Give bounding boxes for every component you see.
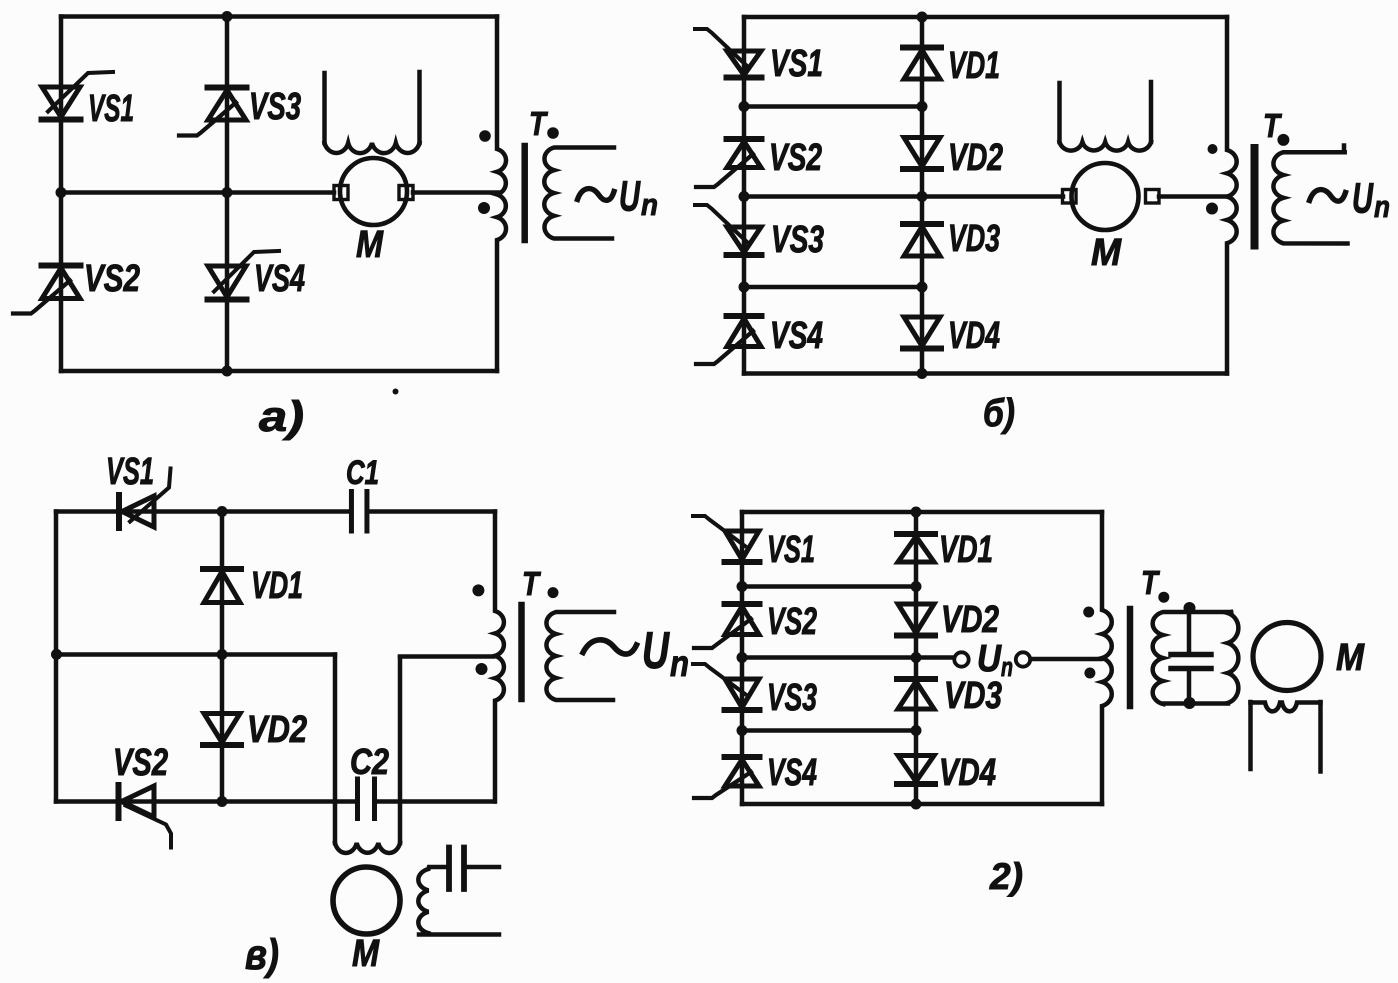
- svg-text:VS2: VS2: [769, 137, 822, 179]
- svg-text:n: n: [641, 187, 658, 222]
- svg-text:VS2: VS2: [113, 742, 168, 784]
- svg-text:VS1: VS1: [770, 43, 823, 85]
- svg-text:U: U: [619, 173, 641, 221]
- svg-text:VD2: VD2: [941, 599, 999, 641]
- svg-text:VD4: VD4: [948, 315, 1000, 357]
- svg-text:C1: C1: [346, 454, 379, 492]
- svg-text:VS1: VS1: [767, 529, 815, 571]
- svg-text:M: M: [1336, 637, 1365, 679]
- svg-text:VD3: VD3: [948, 218, 1000, 260]
- svg-text:VS4: VS4: [770, 315, 823, 357]
- svg-text:в): в): [245, 931, 279, 979]
- svg-text:U: U: [642, 622, 670, 680]
- svg-text:n: n: [1001, 652, 1013, 682]
- svg-text:VS2: VS2: [84, 258, 140, 300]
- svg-text:M: M: [1091, 232, 1122, 274]
- svg-text:VD1: VD1: [251, 565, 303, 607]
- svg-text:VD3: VD3: [944, 675, 1002, 717]
- svg-text:VS2: VS2: [767, 601, 817, 643]
- svg-text:VD1: VD1: [939, 529, 993, 571]
- svg-text:2): 2): [989, 856, 1023, 897]
- svg-text:VS1: VS1: [106, 451, 154, 493]
- svg-text:n: n: [670, 643, 689, 684]
- svg-text:б): б): [983, 392, 1015, 435]
- svg-text:T: T: [1263, 107, 1282, 144]
- svg-text:M: M: [352, 933, 380, 975]
- svg-text:U: U: [977, 638, 1002, 680]
- svg-text:VD1: VD1: [948, 45, 1000, 87]
- svg-text:U: U: [1352, 175, 1374, 223]
- svg-text:T: T: [522, 565, 541, 602]
- svg-text:а): а): [259, 393, 304, 441]
- svg-text:T: T: [1141, 564, 1160, 601]
- svg-text:VD4: VD4: [939, 752, 996, 794]
- svg-text:M: M: [356, 224, 384, 266]
- svg-text:n: n: [1374, 189, 1390, 224]
- svg-text:VS1: VS1: [88, 88, 134, 130]
- svg-text:VS3: VS3: [249, 86, 301, 128]
- svg-text:VD2: VD2: [948, 137, 1003, 179]
- svg-text:T: T: [529, 105, 548, 142]
- svg-text:VD2: VD2: [247, 709, 307, 751]
- svg-text:VS4: VS4: [254, 258, 305, 300]
- svg-text:VS4: VS4: [767, 752, 817, 794]
- svg-text:C2: C2: [350, 741, 389, 782]
- svg-text:VS3: VS3: [767, 677, 817, 719]
- svg-text:VS3: VS3: [771, 219, 824, 261]
